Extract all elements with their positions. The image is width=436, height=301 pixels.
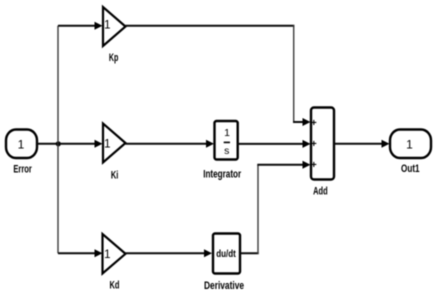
wire to Kp xyxy=(58,25,96,27)
wire Add to Out1 xyxy=(334,143,383,145)
svg-text:Kd: Kd xyxy=(110,280,120,292)
gain Ki xyxy=(103,124,126,163)
svg-text:+: + xyxy=(311,160,317,171)
svg-text:Ki: Ki xyxy=(111,169,119,181)
wire Integrator to Add input 2 xyxy=(237,143,304,145)
svg-text:du/dt: du/dt xyxy=(216,249,236,260)
svg-text:Error: Error xyxy=(13,164,32,176)
gain Kp xyxy=(103,7,126,46)
svg-text:1: 1 xyxy=(104,249,110,261)
svg-text:Out1: Out1 xyxy=(401,163,420,175)
wire Derivative to Add input 3 xyxy=(240,252,259,254)
svg-text:Kp: Kp xyxy=(109,52,119,64)
svg-text:1: 1 xyxy=(104,138,110,150)
integrator block xyxy=(215,121,238,160)
svg-text:Add: Add xyxy=(313,185,328,197)
svg-text:1: 1 xyxy=(224,127,230,139)
svg-text:Derivative: Derivative xyxy=(204,280,244,292)
derivative block xyxy=(213,234,240,274)
wire to Ki xyxy=(58,143,96,145)
wire Error to junction xyxy=(37,143,58,145)
svg-text:+: + xyxy=(311,139,317,150)
wire to Kd xyxy=(58,252,96,254)
svg-text:1: 1 xyxy=(18,137,25,151)
wire Kd to Derivative xyxy=(126,252,206,254)
sum block Add xyxy=(311,108,334,180)
gain Kd xyxy=(103,234,126,274)
junction node xyxy=(56,141,61,146)
svg-text:s: s xyxy=(224,145,229,157)
inport Error (block 1) xyxy=(6,130,37,159)
outport Out1 (block 1) xyxy=(390,130,431,159)
svg-text:+: + xyxy=(311,118,317,129)
wire vertical branch xyxy=(57,26,59,253)
wire Ki to Integrator xyxy=(126,143,208,145)
svg-text:1: 1 xyxy=(406,138,413,152)
svg-text:1: 1 xyxy=(104,20,110,32)
wire Kp to Add input 1 xyxy=(126,25,295,27)
svg-text:Integrator: Integrator xyxy=(203,168,242,180)
